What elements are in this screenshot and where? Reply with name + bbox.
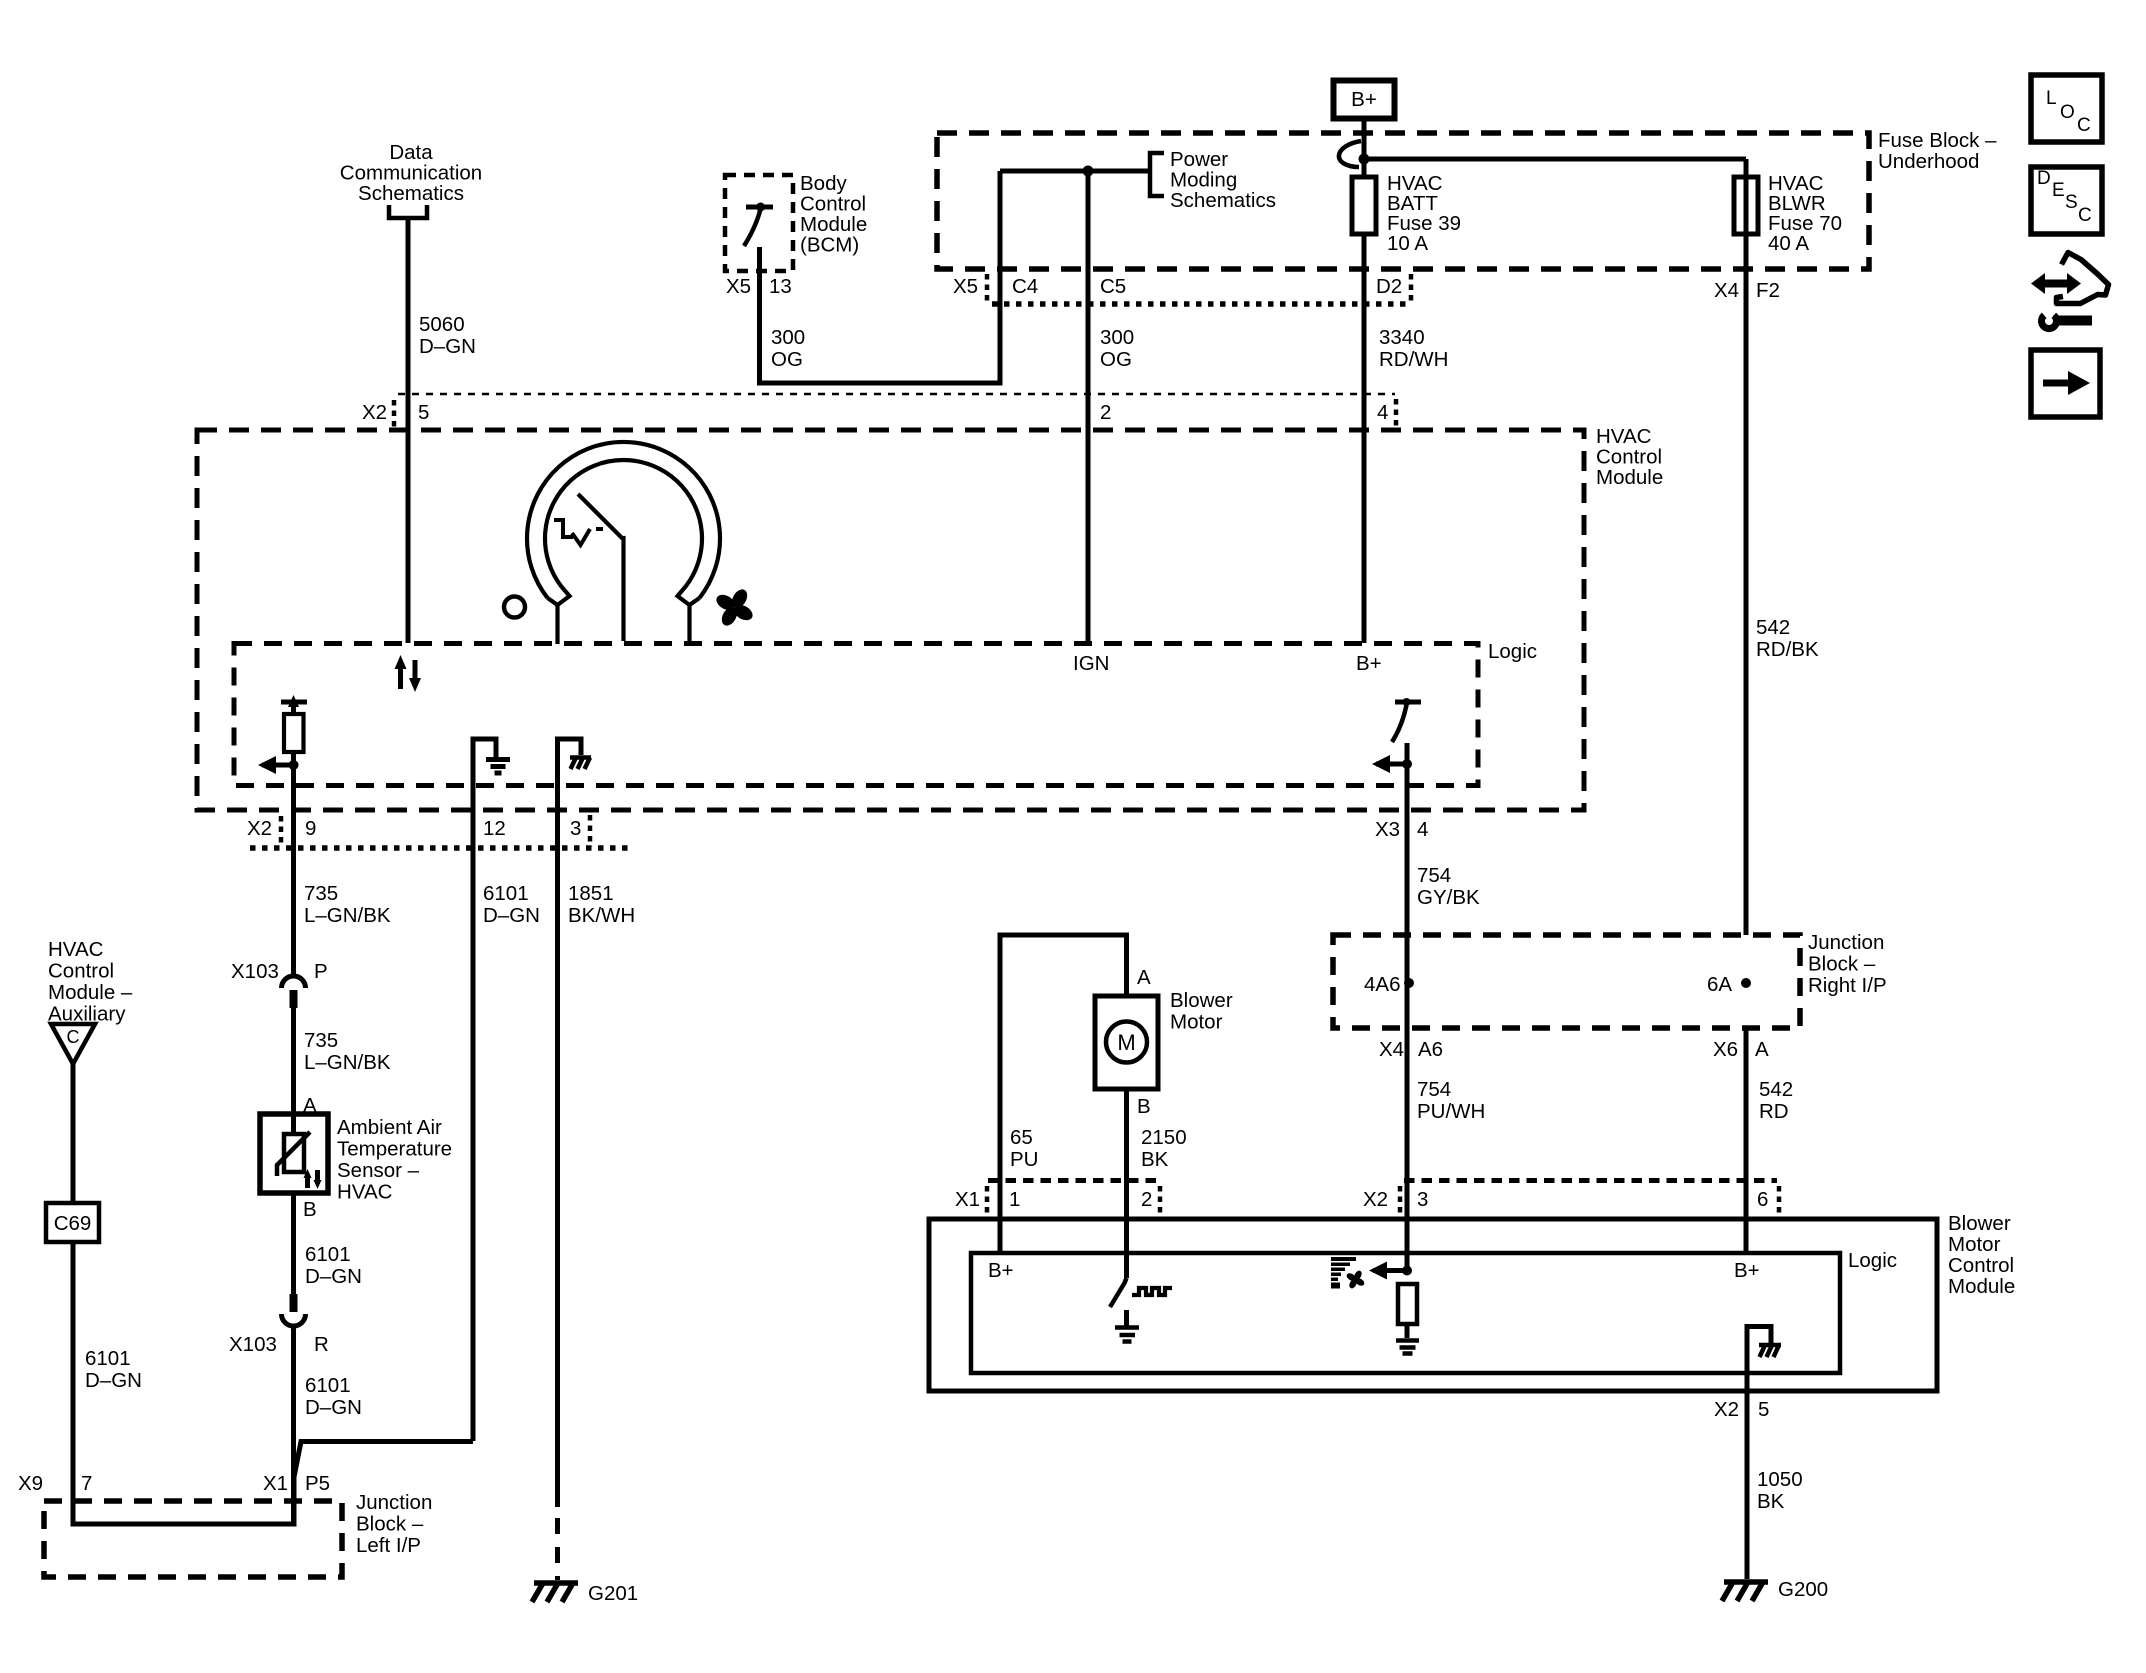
dial fan icon [714,587,756,629]
label Fuse Block Underhood [1878,129,1997,173]
svg-text:Right I/P: Right I/P [1808,974,1887,997]
svg-text:D–GN: D–GN [483,904,540,927]
wire 6101 from C69 down [71,1242,76,1524]
svg-text:2150: 2150 [1141,1126,1187,1149]
BMCM motor driver switch [1110,1278,1127,1307]
svg-text:D–GN: D–GN [305,1396,362,1419]
fuse HVAC BLWR Fuse 70 40A [1734,177,1758,234]
label B+ right (BMCM) [1734,1259,1760,1282]
thermistor resistor [284,1134,304,1172]
wire 754 PU/WH junction block to BMCM [1405,935,1410,1271]
svg-text:7: 7 [81,1472,92,1495]
svg-text:735: 735 [304,1029,338,1052]
Ambient Air Temperature Sensor box [260,1114,328,1193]
junction terminal 6A [1707,973,1732,996]
off-page connector bracket (Data Communication) [389,205,427,218]
Fuse Block Underhood dashed box [937,133,1869,269]
resistor (HVAC CM) [284,714,304,752]
chassis ground symbol small (HVAC CM) [570,758,591,770]
pin labels X2 3 6 [1363,1188,1768,1211]
connector row X1 (BMCM) dotted [988,1178,1160,1183]
svg-text:R: R [314,1333,329,1356]
label 300 OG (BCM wire) [771,326,805,371]
pin labels X5 C4 C5 D2 [953,275,1402,298]
HVAC CM ground 1 (clean) wire [473,739,496,1441]
label Junction Block Left IP [356,1491,432,1557]
svg-text:X4: X4 [1379,1038,1404,1061]
chassis ground G201 [532,1583,578,1602]
icon LOC box [2031,75,2102,142]
junction node C5 branch [1083,166,1094,177]
dial glyph inside [554,520,603,545]
svg-text:1050: 1050 [1757,1468,1803,1491]
svg-text:B+: B+ [988,1259,1014,1282]
svg-text:754: 754 [1417,1078,1451,1101]
svg-text:Logic: Logic [1848,1249,1897,1272]
svg-text:D–GN: D–GN [85,1369,142,1392]
svg-text:X5: X5 [726,275,751,298]
wire from triangle to C69 [71,1064,76,1203]
label A (sensor) [303,1094,317,1117]
svg-text:2: 2 [1141,1188,1152,1211]
svg-text:Junction: Junction [356,1491,432,1514]
icon arrow box [2031,350,2100,417]
svg-text:1851: 1851 [568,882,614,905]
pin labels X6 A [1713,1038,1769,1061]
svg-text:L: L [2046,88,2057,109]
label Ambient Air Temperature Sensor HVAC [337,1116,452,1204]
svg-text:X103: X103 [229,1333,277,1356]
svg-text:5: 5 [1758,1398,1769,1421]
svg-text:542: 542 [1759,1078,1793,1101]
pin labels X2 5 2 4 [362,401,1388,424]
svg-text:C: C [67,1027,80,1047]
wire 754 GY/BK label [1417,864,1480,909]
separator after X1 [985,1186,990,1213]
wire 3340 RD/WH from fuse 39 down [1362,234,1367,643]
svg-text:D2: D2 [1376,275,1402,298]
Junction Block Right IP dashed box [1333,935,1800,1028]
switch feedback arrow [1376,762,1407,767]
control arrow to wire 754 [1373,1268,1407,1273]
svg-text:F2: F2 [1756,279,1780,302]
svg-text:Fuse Block –: Fuse Block – [1878,129,1997,152]
label B (sensor) [303,1198,317,1221]
svg-text:Underhood: Underhood [1878,150,1979,173]
HVAC CM ground 2 (chassis) wire [558,739,582,1507]
svg-text:A: A [1137,966,1151,989]
chassis ground G200 [1722,1582,1768,1601]
Blower Motor Control Module box [929,1219,1937,1391]
svg-text:OG: OG [1100,348,1132,371]
Body Control Module dashed box [725,175,793,271]
wire 2150 BK from motor B [1124,1089,1129,1278]
svg-text:E: E [2052,180,2065,201]
separator after pin 2 [1158,1186,1163,1213]
svg-text:L–GN/BK: L–GN/BK [304,904,391,927]
svg-text:HVAC: HVAC [337,1181,393,1204]
svg-text:Schematics: Schematics [1170,189,1276,212]
wire 735 between connector and sensor [291,1008,296,1134]
svg-text:X9: X9 [18,1472,43,1495]
label Body Control Module (BCM) [800,172,867,257]
up/down arrows below X2-5 wire [395,655,422,692]
svg-text:Control: Control [48,960,114,983]
inline connector X103 P (arc + pin) [282,976,306,988]
svg-text:B: B [1137,1095,1151,1118]
svg-text:RD/WH: RD/WH [1379,348,1448,371]
svg-text:Motor: Motor [1948,1233,2001,1256]
svg-text:Left I/P: Left I/P [356,1534,421,1557]
triangle connector C (auxiliary) [51,1024,95,1064]
svg-text:Blower: Blower [1948,1212,2011,1235]
svg-text:3: 3 [1417,1188,1428,1211]
svg-text:300: 300 [771,326,805,349]
connector row X2 (BMCM) dotted [1404,1178,1777,1183]
svg-text:X2: X2 [1363,1188,1388,1211]
separator after pin 6 [1777,1186,1782,1213]
svg-text:6101: 6101 [305,1243,351,1266]
svg-text:(BCM): (BCM) [800,234,859,257]
svg-text:X1: X1 [263,1472,288,1495]
svg-text:Logic: Logic [1488,640,1537,663]
svg-text:Junction: Junction [1808,931,1884,954]
label B+ (HVAC CM) [1356,652,1382,675]
dial left tip and leg [548,587,570,644]
node Data Communication Schematics label [340,141,482,205]
svg-text:C: C [2077,115,2091,136]
wire 300 OG C5 vertical to IGN [1086,171,1091,643]
svg-text:GY/BK: GY/BK [1417,886,1480,909]
Blower Motor box [1095,996,1158,1089]
wire 1050 BK to G200 [1745,1424,1750,1579]
HVAC Control Module outer dashed box [197,430,1584,810]
svg-text:4A6: 4A6 [1364,973,1400,996]
svg-text:OG: OG [771,348,803,371]
blower speed rotary dial outer arc [527,442,720,598]
svg-text:13: 13 [769,275,792,298]
svg-text:Control: Control [1948,1254,2014,1277]
separator after X2 [392,400,397,430]
svg-text:S: S [2065,192,2078,213]
pin label X5 13 [726,275,792,298]
svg-text:2: 2 [1100,401,1111,424]
label B (motor) [1137,1095,1151,1118]
svg-text:5: 5 [418,401,429,424]
label HVAC Control Module [1596,425,1663,489]
svg-text:C69: C69 [54,1212,92,1235]
wire bus to HVAC BLWR fuse [1364,157,1746,162]
svg-text:P: P [314,960,328,983]
label B+ left (BMCM) [988,1259,1014,1282]
svg-text:Block –: Block – [356,1513,424,1536]
svg-text:5060: 5060 [419,313,465,336]
svg-text:Motor: Motor [1170,1011,1223,1034]
separator after pin 3 (bottom row) [588,815,593,847]
svg-text:D–GN: D–GN [305,1265,362,1288]
clean ground (BMCM left) [1115,1328,1139,1342]
wire 542 RD junction block to BMCM [1744,1028,1749,1253]
svg-text:6101: 6101 [85,1347,131,1370]
svg-text:B+: B+ [1734,1259,1760,1282]
svg-text:X6: X6 [1713,1038,1738,1061]
sense resistor (BMCM) [1398,1284,1417,1324]
svg-text:9: 9 [305,817,316,840]
label 3340 RD/WH [1379,326,1448,371]
pin labels X4 F2 [1714,279,1780,302]
labels 65 PU and 2150 BK [1010,1126,1187,1171]
HVAC Control Module Auxiliary label [48,938,133,1026]
BMCM inner Logic box [971,1253,1840,1373]
svg-text:PU/WH: PU/WH [1417,1100,1485,1123]
svg-text:65: 65 [1010,1126,1033,1149]
chassis ground symbol small (BMCM) [1759,1345,1781,1357]
B+ power symbol box [1334,81,1395,119]
svg-text:3: 3 [570,817,581,840]
svg-text:40 A: 40 A [1768,232,1809,255]
svg-text:HVAC: HVAC [48,938,104,961]
svg-text:IGN: IGN [1073,652,1109,675]
svg-text:Module: Module [1596,466,1663,489]
svg-text:X103: X103 [231,960,279,983]
connector row X2 top thin dotted [398,393,1395,396]
svg-text:1: 1 [1009,1188,1020,1211]
svg-text:D–GN: D–GN [419,335,476,358]
small up/down arrows in sensor [308,1170,318,1188]
svg-text:6: 6 [1757,1188,1768,1211]
pin labels X2 9 12 3 [247,817,581,840]
label 300 OG (C5 wire) [1100,326,1134,371]
svg-text:BK/WH: BK/WH [568,904,635,927]
svg-text:BK: BK [1757,1490,1785,1513]
svg-text:X1: X1 [955,1188,980,1211]
svg-text:X2: X2 [247,817,272,840]
svg-text:G200: G200 [1778,1578,1828,1601]
svg-text:6101: 6101 [483,882,529,905]
junction terminal 4A6 [1364,973,1400,996]
icon DESC box [2031,167,2102,234]
svg-text:B+: B+ [1356,652,1382,675]
svg-text:X5: X5 [953,275,978,298]
fan icon small (BMCM) [1345,1269,1365,1289]
svg-text:X2: X2 [362,401,387,424]
wire below resistor [291,752,296,977]
wire 542 RD/BK from fuse 70 down to junction block [1744,159,1749,935]
svg-text:6101: 6101 [305,1374,351,1397]
svg-text:300: 300 [1100,326,1134,349]
BCM internal switch [744,203,773,247]
svg-text:Temperature: Temperature [337,1138,452,1161]
svg-text:Sensor –: Sensor – [337,1159,420,1182]
inline connector X103 R (pin + arc) [290,1294,298,1312]
wire 5060 D-GN vertical [406,218,411,643]
fan speed icon (BMCM) [1331,1257,1356,1289]
BMCM ground return jog [1747,1327,1771,1425]
svg-text:Module: Module [1948,1275,2015,1298]
pin labels X9 7 X1 P5 [18,1472,330,1495]
svg-text:6A: 6A [1707,973,1732,996]
HVAC CM output switch (blower relay driver) [1395,700,1421,705]
svg-text:10 A: 10 A [1387,232,1428,255]
switch lower contact stub [1124,1310,1129,1326]
blower motor feed wire A [1000,935,1127,1253]
wiper arrow left [262,763,294,768]
separator after X2 label [1398,1186,1403,1213]
icon hand with double arrow and wrench [2031,253,2109,329]
HVAC CM blend resistor branch: top tee with up arrow [281,700,307,705]
pin labels X4 A6 [1379,1038,1443,1061]
clean ground symbol (HVAC CM) [486,760,510,774]
svg-text:C5: C5 [1100,275,1126,298]
PWM square wave icon [1132,1288,1172,1295]
svg-text:O: O [2060,102,2075,123]
label IGN [1073,652,1109,675]
thermistor diagonal strike [277,1132,310,1176]
svg-text:542: 542 [1756,616,1790,639]
connector separator D2 [1409,274,1414,303]
Junction Block Left IP dashed box [44,1501,342,1577]
svg-text:C4: C4 [1012,275,1038,298]
wire power moding horizontal [1000,169,1150,174]
connector row X5 C4 C5 D2 dotted line [992,301,1411,307]
pin labels X2 5 (BMCM bottom) [1714,1398,1769,1421]
svg-text:754: 754 [1417,864,1451,887]
svg-text:Block –: Block – [1808,953,1876,976]
bus curl symbol [1339,141,1361,167]
svg-text:A6: A6 [1418,1038,1443,1061]
label 5060 D-GN [419,313,476,358]
svg-text:X2: X2 [1714,1398,1739,1421]
rotary dial inner arc [545,460,702,587]
svg-text:Ambient Air: Ambient Air [337,1116,442,1139]
connector row X2 bottom (HVAC CM) dotted [250,845,630,851]
svg-text:M: M [1117,1030,1135,1055]
internal bus junction block left [73,1477,294,1524]
svg-text:B+: B+ [1351,88,1377,111]
svg-text:P5: P5 [305,1472,330,1495]
svg-text:Module –: Module – [48,981,133,1004]
svg-text:A: A [1755,1038,1769,1061]
svg-text:BK: BK [1141,1148,1169,1171]
pin labels X1 1 2 [955,1188,1152,1211]
dial selector lever [578,494,624,641]
wire from B+ into fuse block [1362,121,1367,177]
inner Logic dashed box (HVAC CM) [234,644,1478,786]
connector separator X5 [985,274,990,303]
junction node at B+ bus [1359,154,1370,165]
svg-text:Schematics: Schematics [358,182,464,205]
wire labels below HVAC CM [304,882,635,927]
wire BCM X5-13 down right and up to power moding [760,171,1001,383]
svg-text:X3: X3 [1375,818,1400,841]
connector box C69 [46,1203,99,1242]
svg-text:D: D [2037,168,2051,189]
fuse HVAC BATT Fuse 39 10A [1352,177,1376,234]
motor M circle [1106,1022,1147,1063]
svg-text:Blower: Blower [1170,989,1233,1012]
svg-text:G201: G201 [588,1582,638,1605]
wire 6101 below X103 R [291,1326,296,1524]
dial right tip and leg [678,587,700,644]
pin labels X3 4 [1375,818,1428,841]
svg-text:3340: 3340 [1379,326,1425,349]
dial off circle [504,597,525,618]
label A (motor) [1137,966,1151,989]
svg-text:735: 735 [304,882,338,905]
wire 1851 dashed portion to G201 [555,1518,560,1580]
svg-text:RD: RD [1759,1100,1789,1123]
wire 754 from switch down [1405,743,1410,935]
svg-text:4: 4 [1417,818,1428,841]
off-page connector bracket Power Moding Schematics [1150,153,1164,196]
svg-text:4: 4 [1377,401,1388,424]
svg-text:12: 12 [483,817,506,840]
svg-text:RD/BK: RD/BK [1756,638,1819,661]
separator after X2 (bottom row) [279,816,284,847]
svg-text:C: C [2078,205,2092,226]
svg-text:L–GN/BK: L–GN/BK [304,1051,391,1074]
svg-text:PU: PU [1010,1148,1038,1171]
svg-text:B: B [303,1198,317,1221]
wire 6101 below sensor [291,1193,296,1295]
wire 6101 from HVAC CM X2-12 down and jog left [294,1442,473,1478]
separator after pin 4 [1394,399,1399,429]
svg-text:X4: X4 [1714,279,1739,302]
label 542 RD/BK [1756,616,1819,661]
clean ground (BMCM middle) [1396,1341,1419,1354]
